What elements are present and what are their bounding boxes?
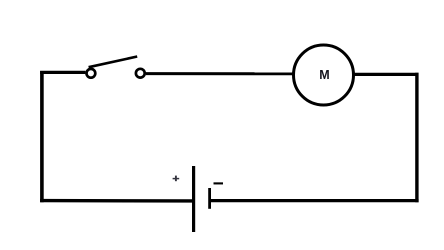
wire bottom-right horizontal	[210, 199, 419, 202]
wire bottom-left horizontal	[40, 199, 193, 203]
svg-text:M: M	[319, 68, 329, 82]
switch (open SPST)	[87, 57, 145, 78]
wire switch-to-motor horizontal	[146, 72, 293, 75]
battery - label	[214, 182, 224, 184]
battery + label	[173, 176, 180, 182]
wire left vertical	[40, 71, 44, 202]
motor M	[294, 45, 354, 105]
wire top-left horizontal	[40, 71, 85, 74]
battery	[194, 166, 210, 232]
wire right vertical	[415, 73, 418, 202]
wire motor-to-corner horizontal	[355, 73, 419, 76]
